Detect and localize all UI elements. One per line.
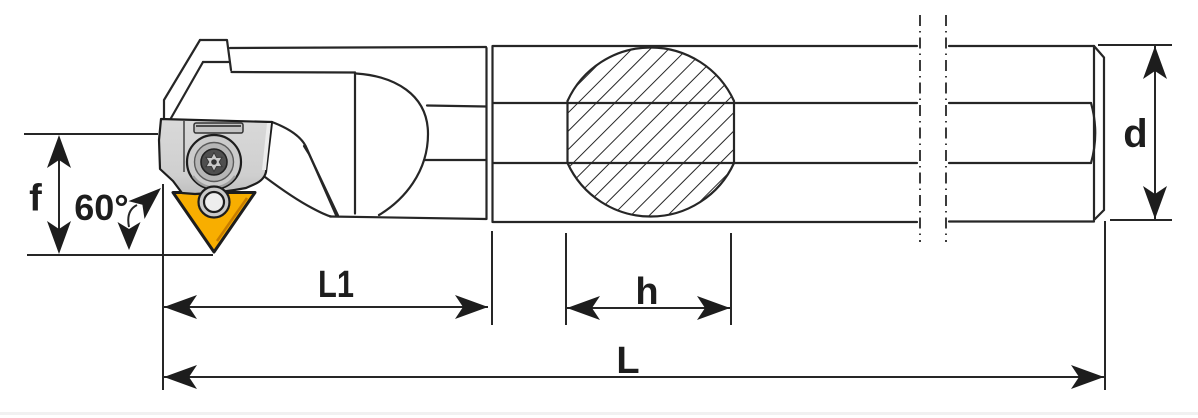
svg-text:f: f <box>29 178 42 220</box>
torx star <box>206 153 222 172</box>
svg-text:60°: 60° <box>74 187 128 228</box>
step joint verticals <box>487 46 493 222</box>
shank bottom edge <box>330 217 1094 223</box>
dim h left extension <box>565 233 567 325</box>
svg-text:d: d <box>1123 112 1147 156</box>
arrow 60 upper <box>128 179 169 219</box>
head right chamfer outer <box>272 122 336 215</box>
insert shade line <box>217 198 247 241</box>
shank mid line upper <box>427 103 1091 107</box>
insert hole <box>204 192 224 212</box>
svg-text:L1: L1 <box>318 264 354 306</box>
head top tab <box>200 40 231 70</box>
arrow f up <box>47 135 71 168</box>
dim h line <box>566 307 731 309</box>
screw ring <box>195 143 234 182</box>
arrow h left <box>567 296 600 320</box>
dim L line <box>163 376 1105 378</box>
shank top edge <box>230 46 1094 48</box>
screw boss <box>187 135 241 189</box>
clamp panel divider <box>183 120 185 172</box>
neck bulge <box>356 74 428 216</box>
head left slant outer <box>164 40 200 120</box>
screw boss inner shadow <box>193 176 235 187</box>
neck top line <box>232 71 356 74</box>
extension line tip vertical <box>162 184 164 390</box>
faint bottom strip <box>0 412 1198 415</box>
clamp right highlight band <box>262 123 271 170</box>
clamp body <box>159 119 272 194</box>
break line right <box>945 15 947 242</box>
svg-text:h: h <box>635 271 658 313</box>
arrow f down <box>47 221 71 254</box>
clamp nose collar <box>199 187 230 218</box>
dim d top extension <box>1098 44 1172 46</box>
dim f arrow line <box>58 150 60 240</box>
dim f top line <box>24 133 158 135</box>
arrow 60 lower <box>118 222 141 250</box>
clamp top slot <box>194 123 243 133</box>
arrow h right <box>697 296 730 320</box>
break line left <box>919 15 921 242</box>
cross-section hatching <box>560 40 742 225</box>
head right chamfer inner <box>304 146 338 216</box>
arrow L1 right <box>455 295 488 319</box>
dim f bottom line <box>27 254 213 256</box>
dim L1 line <box>163 306 488 308</box>
torx center <box>211 159 217 165</box>
shank mid line lower <box>424 160 1091 163</box>
arrow L1 left <box>164 295 197 319</box>
arrow L left <box>164 365 197 389</box>
dim d line <box>1154 45 1156 220</box>
dim L1 right extension <box>491 231 493 325</box>
neck vertical <box>354 73 356 214</box>
right end face <box>1094 46 1104 220</box>
right end curve <box>1091 103 1095 163</box>
arrow L right <box>1071 365 1104 389</box>
svg-text:L: L <box>616 340 639 382</box>
dim h right extension <box>730 233 732 325</box>
cross-section outline <box>568 47 735 216</box>
head left slant inner <box>171 62 204 119</box>
clamp slot shadow <box>196 125 241 127</box>
head bottom curve <box>265 177 331 217</box>
arrow d down <box>1143 186 1167 219</box>
insert triangle <box>173 193 255 253</box>
dim L right extension <box>1104 221 1106 390</box>
angle arc <box>128 205 137 227</box>
dim d bottom extension <box>1110 219 1172 221</box>
arrow d up <box>1143 46 1167 79</box>
screw socket <box>201 149 227 175</box>
